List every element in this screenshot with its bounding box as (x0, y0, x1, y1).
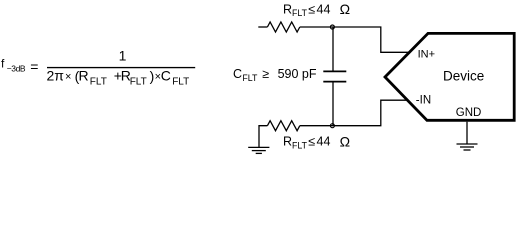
wire ground to bottom resistor (259, 126, 267, 148)
svg-text:×: × (65, 71, 71, 83)
svg-text:=: = (30, 59, 38, 75)
svg-text:GND: GND (456, 107, 482, 119)
svg-text:FLT: FLT (242, 73, 258, 83)
svg-text:≤: ≤ (308, 2, 315, 16)
svg-text:44: 44 (317, 2, 331, 16)
svg-text:f: f (1, 57, 5, 71)
svg-text:R: R (283, 2, 292, 16)
svg-text:FLT: FLT (172, 76, 189, 87)
wire resistor to node A (300, 26, 333, 28)
svg-text:R: R (283, 135, 292, 149)
ground (bottom-left) (248, 147, 269, 153)
node A junction (330, 25, 334, 29)
ground (below device) (457, 144, 478, 150)
svg-text:C: C (161, 68, 171, 84)
svg-text:590 pF: 590 pF (278, 67, 317, 81)
wire resistor to node B (300, 125, 333, 127)
svg-text:IN+: IN+ (418, 48, 435, 60)
wire GND pin to ground (466, 122, 468, 144)
svg-text:C: C (233, 67, 242, 81)
svg-text:Ω: Ω (340, 134, 350, 150)
wire node A to IN+ pin (333, 27, 409, 52)
svg-text:44: 44 (317, 135, 331, 149)
svg-text:R: R (79, 68, 89, 84)
resistor R_FLT top (267, 22, 299, 32)
svg-text:FLT: FLT (90, 76, 107, 87)
svg-text:): ) (150, 68, 155, 84)
node B junction (330, 124, 334, 128)
svg-text:≤: ≤ (308, 135, 315, 149)
value label CFLT &ge; 590 pF (233, 67, 317, 83)
svg-text:2π: 2π (47, 68, 65, 84)
svg-text:FLT: FLT (292, 8, 308, 18)
value label RFLT &le; 44 Ohm (top) (283, 1, 350, 18)
value label RFLT &le; 44 Ohm (bottom) (283, 134, 350, 151)
wire top input lead (258, 26, 267, 28)
svg-text:−3dB: −3dB (7, 64, 26, 74)
svg-text:-IN: -IN (416, 94, 431, 106)
svg-text:Ω: Ω (340, 1, 350, 17)
resistor R_FLT bottom (267, 121, 299, 131)
svg-text:1: 1 (119, 48, 127, 64)
svg-text:FLT: FLT (130, 76, 147, 87)
svg-text:Device: Device (443, 68, 484, 83)
device U1 outline (385, 33, 514, 120)
equation f-3dB = 1/(2pi(RFLT+RFLT)CFLT) value label (1, 48, 195, 88)
wire node B to -IN pin (333, 100, 408, 126)
capacitor C_FLT (323, 27, 346, 126)
svg-text:≥: ≥ (262, 67, 269, 81)
svg-text:FLT: FLT (292, 140, 308, 150)
